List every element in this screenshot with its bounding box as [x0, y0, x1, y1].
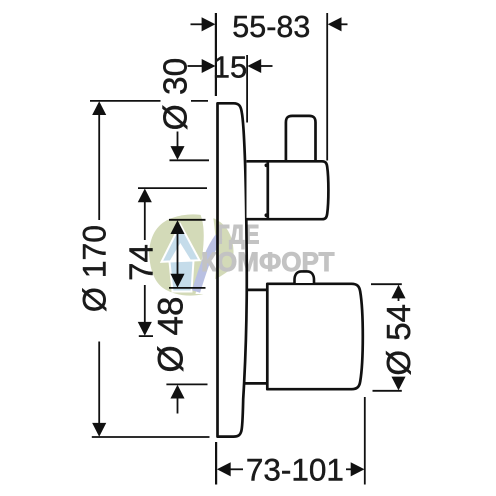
tick knob neck bottom y=384.4 [166, 383, 207, 385]
dimension Ø170 line upper [98, 112, 100, 220]
svg-text:15: 15 [213, 49, 247, 84]
svg-text:Ø 170: Ø 170 [77, 225, 113, 312]
extension line 15 right / plate front [246, 55, 248, 123]
tick Ø54 bottom [373, 390, 402, 392]
tick plate top y=100 [90, 100, 161, 102]
dimension 15 right arrow [259, 65, 273, 67]
upper handle neck+body [247, 161, 329, 219]
dimension 55-83 left arrow [191, 23, 204, 25]
dimension Ø170 up arrow [92, 101, 106, 115]
tick Ø54 top [371, 283, 402, 285]
dimension Ø170 line lower [98, 342, 100, 427]
dimension 73-101 right arrow [346, 468, 353, 470]
extension line 73-101 left [215, 442, 217, 485]
tick handle body bottom y=219.8 [169, 219, 206, 221]
svg-text:КОМФОРТ: КОМФОРТ [201, 247, 335, 277]
upper handle stem [286, 116, 316, 160]
dimension Ø54 down arrow [398, 378, 400, 382]
tick lower axis y=336 [139, 335, 153, 337]
lower knob neck [246, 289, 267, 292]
dimension Ø54 up arrow [391, 285, 405, 299]
dimension Ø48 upper down arrow [170, 274, 184, 288]
dimension Ø30 down arrow [177, 132, 179, 150]
svg-text:ГДЕ: ГДЕ [217, 219, 260, 249]
dimension 55-83 right arrow [340, 23, 348, 25]
watermark check stroke [196, 237, 219, 292]
dimension Ø48 lower up arrow [170, 385, 184, 399]
svg-text:Ø 48: Ø 48 [152, 297, 191, 373]
dimension 15 left arrow [188, 65, 204, 67]
watermark white notch [169, 243, 192, 262]
tick handle body top y=160 [170, 159, 210, 161]
svg-text:Ø 54: Ø 54 [380, 304, 417, 376]
wall plate escutcheon (side view) [218, 103, 247, 436]
dimension Ø170 down arrow [92, 423, 106, 437]
watermark logo (multiply overlay) [149, 213, 335, 297]
upper handle body left divider [266, 161, 269, 219]
extension line 55-83 left / back of plate [215, 13, 217, 96]
lower thermostat knob [267, 284, 363, 389]
extension line 55-83 right / handle front [326, 13, 328, 161]
tick plate bottom y=437 [92, 436, 210, 438]
watermark blue arrow head [162, 225, 200, 262]
dimension Ø30 up arrow (tail shared with Ø48 upper) [170, 220, 184, 234]
knob top tab [295, 271, 315, 283]
watermark white cut bottom-right [204, 258, 242, 296]
watermark blue arrow tail [170, 261, 194, 292]
tick knob top y=287.9 [169, 287, 206, 289]
svg-text:73-101: 73-101 [246, 452, 344, 488]
dimension 74 up arrow [138, 189, 152, 203]
dimension 74 down arrow [144, 285, 146, 325]
svg-text:Ø 30: Ø 30 [157, 58, 194, 131]
tick upper axis y=188 [138, 187, 207, 189]
watermark white swoosh [196, 213, 217, 295]
dimension 73-101 left arrow [217, 462, 231, 476]
svg-text:55-83: 55-83 [232, 10, 310, 44]
extension line 73-101 right [364, 397, 366, 485]
watermark leaf [149, 214, 234, 295]
